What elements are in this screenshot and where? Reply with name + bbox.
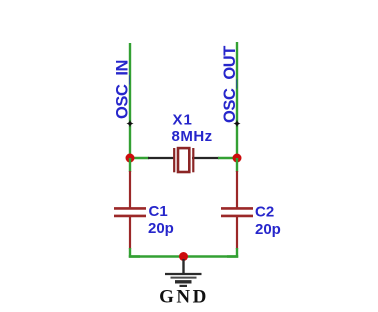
pin 1 of C1 (dark red lead) <box>129 171 131 208</box>
terminal marker OSC_IN <box>126 120 133 128</box>
capacitor C1 <box>114 208 146 216</box>
wire OSC_IN vertical (left) <box>129 43 131 156</box>
svg-text:X1: X1 <box>173 112 193 129</box>
wire bottom horizontal <box>129 255 238 257</box>
terminal marker OSC_OUT <box>233 120 240 128</box>
svg-text:20p: 20p <box>148 220 174 237</box>
wire left branch green upper <box>129 158 131 172</box>
svg-text:C1: C1 <box>149 203 168 220</box>
pin 2 of C2 (dark red lead) <box>236 217 238 249</box>
svg-text:8MHz: 8MHz <box>172 128 213 145</box>
junction node right <box>233 154 242 163</box>
wire right branch green upper <box>236 158 238 172</box>
pin 2 of C1 (dark red lead) <box>129 217 131 249</box>
pin 2 of X1 (black lead) <box>192 157 219 159</box>
wire horizontal left of crystal <box>130 157 149 159</box>
svg-text:OSC_IN: OSC_IN <box>113 60 131 119</box>
wire OSC_OUT vertical (right) <box>236 42 238 156</box>
crystal X1 <box>174 148 193 172</box>
junction node ground <box>179 252 188 261</box>
svg-text:20p: 20p <box>255 221 281 238</box>
svg-text:C2: C2 <box>255 204 274 221</box>
svg-text:GND: GND <box>159 287 209 308</box>
pin 1 of C2 (dark red lead) <box>236 171 238 208</box>
wire left branch green lower corner <box>130 248 140 257</box>
wire horizontal right of crystal <box>218 157 237 159</box>
wire right branch green lower corner <box>227 248 237 257</box>
ground <box>165 259 202 286</box>
pin 1 of X1 (black lead) <box>148 157 175 159</box>
capacitor C2 <box>221 208 253 216</box>
junction node left <box>126 154 135 163</box>
svg-text:OSC_OUT: OSC_OUT <box>221 46 239 123</box>
